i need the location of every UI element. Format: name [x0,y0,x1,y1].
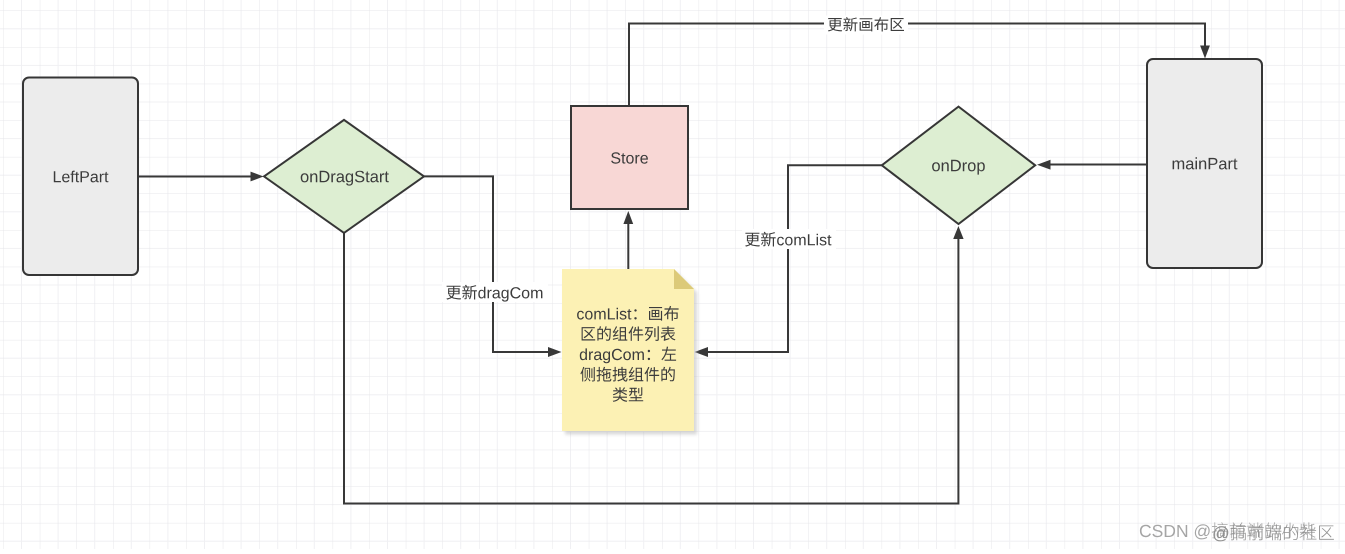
arrowhead into onDrop right [1037,160,1051,170]
wire Store up-right-down to mainPart (更新画布区) [629,24,1205,107]
wire onDrop left-down-left to note [707,165,882,352]
wire note up to Store [627,224,629,270]
rectangle Store [571,106,688,209]
arrowhead into note right [695,347,709,357]
watermark CSDN [1140,522,1316,539]
label 更新comList [742,229,836,249]
note text line 3 [580,347,676,364]
note text line 2 [582,326,676,341]
wire onDragStart down-right-up to onDrop [344,233,958,504]
note text line 4 [580,367,675,382]
rectangle LeftPart [23,78,138,276]
note text line 1 [577,306,679,321]
wire mainPart to onDrop [1050,164,1147,166]
watermark overlap [1213,524,1334,541]
diamond onDragStart [264,120,424,233]
label 更新画布区 [824,16,908,35]
arrowhead into mainPart top [1200,46,1210,59]
arrowhead into onDrop bottom [953,226,963,239]
wire onDragStart right-down-right to note [424,176,549,352]
label 更新dragCom [442,282,548,302]
wire LeftPart to onDragStart [138,176,251,178]
arrowhead into note left [548,347,562,357]
diamond onDrop [882,107,1035,224]
rectangle mainPart [1147,59,1262,268]
arrowhead into Store bottom [623,211,633,224]
note text line 5 [613,387,644,402]
note comList/dragCom [562,269,694,431]
note fold corner [674,269,694,289]
arrowhead into onDragStart [251,172,264,182]
